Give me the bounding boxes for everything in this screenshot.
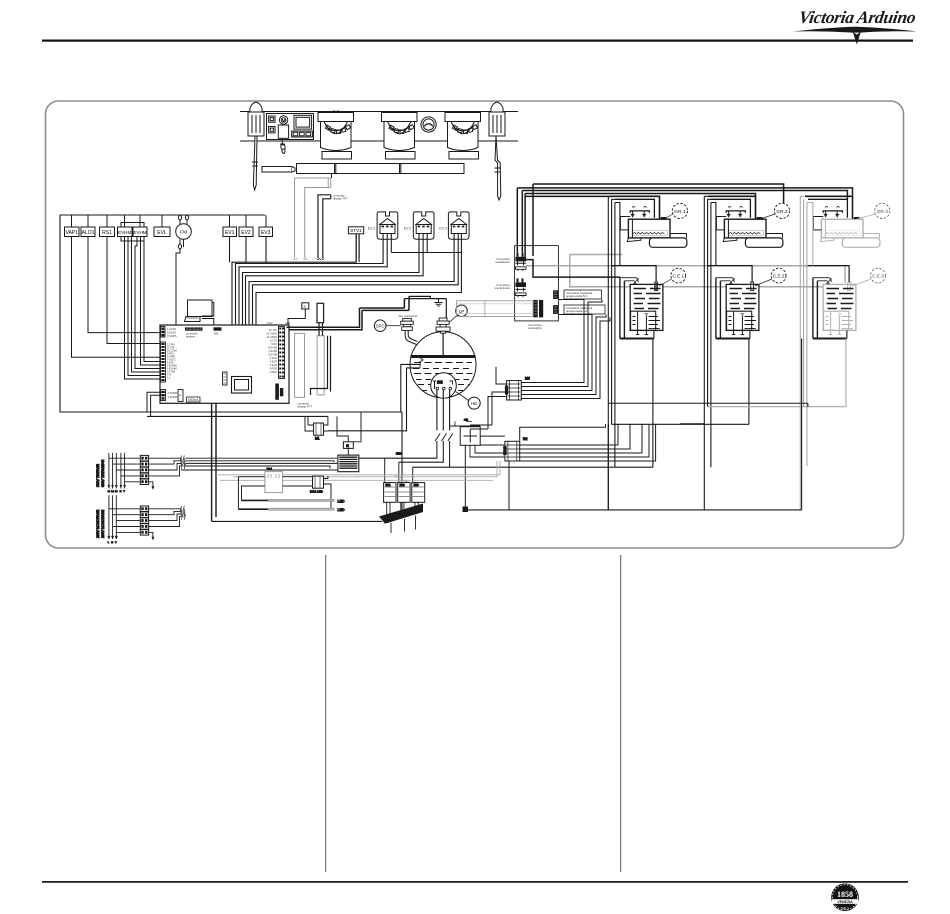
svg-text:230V MONOFASE: 230V MONOFASE — [101, 509, 105, 538]
svg-text:7 EV2B: 7 EV2B — [268, 349, 277, 353]
relay M1 — [314, 423, 324, 435]
bracket around EVHM pair — [121, 223, 144, 242]
water hatch dashes — [413, 363, 473, 391]
relay box EVHM a — [118, 227, 133, 237]
element wires down — [437, 390, 450, 431]
ground symbol — [434, 299, 442, 306]
svg-text:T: T — [115, 542, 117, 544]
thick wire pair CPU to boiler area — [287, 308, 410, 330]
wire common row EV coils — [256, 253, 461, 372]
svg-text:GR.3: GR.3 — [877, 209, 889, 215]
svg-text:C.E.3: C.E.3 — [872, 274, 884, 279]
svg-text:RES: RES — [396, 452, 402, 456]
wires PS to right — [480, 435, 505, 437]
panel display rect — [294, 115, 312, 129]
valve drain tube — [405, 330, 416, 344]
wire FM drop — [160, 249, 180, 348]
connector PWR — [161, 390, 166, 401]
wire EV relay box drops — [230, 237, 267, 263]
svg-text:display TFT: display TFT — [333, 197, 348, 201]
wire EV2 drop — [245, 237, 247, 256]
svg-text:S: S — [303, 304, 306, 309]
display module icon — [185, 300, 214, 325]
STV1 box — [348, 227, 363, 262]
svg-text:F: F — [179, 394, 181, 398]
group column 2 wires — [708, 196, 762, 338]
wire EV1 drop — [229, 237, 231, 253]
bottom black blocks on board — [275, 384, 279, 400]
svg-text:KM1: KM1 — [386, 484, 392, 487]
bus y521 — [212, 520, 382, 522]
block output wires stepping right — [149, 509, 181, 527]
relay box EV1 — [223, 227, 237, 237]
wires below wedge — [391, 516, 416, 534]
svg-text:380V TRIFASE: 380V TRIFASE — [96, 463, 100, 487]
R2 wires left — [470, 445, 505, 457]
GR.2 label circle — [774, 203, 789, 218]
HE label circle — [468, 397, 480, 409]
svg-text:scaldatazze: scaldatazze — [495, 260, 510, 264]
wire S box to CPU — [288, 309, 305, 325]
svg-text:VAP1: VAP1 — [65, 230, 78, 236]
svg-text:EV3: EV3 — [261, 230, 271, 236]
terminal dot B — [463, 507, 469, 513]
wire STV1 row — [232, 234, 356, 343]
machine base line — [240, 140, 518, 142]
drip tray bar small — [262, 167, 295, 173]
level probe electrode — [419, 356, 424, 363]
svg-text:Victoria Arduino: Victoria Arduino — [797, 7, 917, 27]
svg-text:3 EV3: 3 EV3 — [270, 363, 278, 367]
relay box ALO1 — [81, 227, 95, 237]
crossing tick marks — [180, 506, 185, 520]
svg-text:230V MONOFASE: 230V MONOFASE — [96, 509, 100, 538]
svg-text:tastiere: tastiere — [186, 335, 196, 339]
right steam wand — [489, 102, 505, 200]
svg-text:Connettore resistenza: Connettore resistenza — [566, 306, 593, 310]
outer enclosure wire left — [60, 215, 402, 412]
black wedge under relays — [379, 504, 423, 524]
top bus wire to GR2 tray — [533, 184, 784, 203]
element terminals — [433, 381, 436, 389]
SPC leader line — [386, 325, 401, 327]
wire from outer box corner down — [401, 412, 403, 510]
display board corner wire — [311, 323, 331, 395]
M3 wires left — [488, 367, 507, 429]
col3 riser bundle gray — [800, 196, 807, 510]
bus y467 — [413, 466, 711, 467]
RES block 2 — [553, 305, 558, 314]
riser links into bus510 — [608, 339, 801, 511]
connector pair A row1 — [516, 253, 527, 262]
group column 1 wires — [612, 196, 666, 338]
wire RS1 to CPU — [107, 237, 160, 344]
R box — [343, 442, 353, 449]
relay MA1 — [313, 476, 324, 488]
svg-text:R2: R2 — [523, 437, 527, 441]
svg-text:KM2: KM2 — [400, 484, 406, 487]
ground drop from block — [149, 532, 153, 538]
svg-text:R: R — [346, 444, 349, 448]
element wire west corner 3 — [449, 441, 451, 467]
LED strip wire 1 — [242, 499, 269, 501]
lower horizontal bus pair — [60, 412, 401, 416]
svg-text:T: T — [123, 491, 125, 493]
svg-text:L3: L3 — [115, 491, 118, 493]
terminal block 230V — [96, 495, 186, 544]
boxed label resistenza 1-2 — [564, 305, 605, 314]
STV1 wires — [356, 234, 359, 262]
gray wire upper — [570, 255, 843, 287]
wire solenoid pin row c — [243, 234, 420, 356]
R2 wires right nested — [520, 424, 606, 443]
motor M circle — [279, 116, 287, 124]
connector J1 3pin — [161, 327, 166, 338]
drip tray long bar — [297, 164, 465, 174]
relay box EV3 — [259, 227, 273, 237]
dangling knob — [281, 138, 285, 153]
top bus wire — [60, 214, 265, 216]
ribbon rect 1 — [295, 333, 305, 397]
PWR feed wires from CPU — [147, 392, 166, 416]
water line chord — [411, 355, 476, 358]
svg-text:M3: M3 — [525, 377, 530, 381]
keypad connector black strip — [185, 327, 203, 330]
column divider 2 — [620, 555, 621, 872]
left steam wand knob — [250, 102, 262, 120]
col2 tank risers down — [748, 339, 750, 425]
svg-text:display TFT: display TFT — [298, 405, 313, 409]
GR.3 label circle — [875, 203, 890, 218]
input jogs to block — [109, 509, 140, 533]
panel switch square 2 — [269, 127, 275, 133]
svg-text:13 +5V: 13 +5V — [269, 328, 278, 332]
M3 wires right nested to resistance connectors — [521, 300, 584, 383]
HE leader line — [456, 392, 469, 401]
svg-text:8 EV1B: 8 EV1B — [268, 346, 277, 350]
wire solenoid pin row d — [246, 234, 424, 360]
svg-text:5 EV1: 5 EV1 — [270, 356, 278, 360]
svg-text:N: N — [120, 491, 122, 493]
top bus wire to GR1 — [525, 195, 612, 197]
relay box EVL — [154, 227, 170, 237]
svg-text:6 EV3B: 6 EV3B — [268, 353, 277, 357]
svg-text:C.E.1: C.E.1 — [673, 274, 685, 279]
thick vertical pair from CPU — [212, 403, 216, 521]
control panel group — [267, 114, 314, 140]
fan motor FM circle — [176, 224, 192, 240]
relay box RS1 — [100, 227, 115, 237]
svg-text:11 GND2: 11 GND2 — [266, 335, 277, 339]
svg-text:min: min — [464, 419, 469, 422]
wire solenoid pin row a — [236, 234, 384, 348]
processor square — [232, 377, 252, 394]
element wire west corner 1 — [359, 441, 437, 458]
boiler level wire B — [328, 368, 421, 431]
ground drop from block — [149, 482, 153, 488]
svg-text:1 L: 1 L — [167, 375, 171, 379]
wire stack to col1 black L — [526, 260, 620, 278]
group head top-view 1 — [318, 110, 354, 159]
svg-text:RS1: RS1 — [102, 230, 112, 236]
fuse label 500mA — [187, 397, 201, 402]
CPU board outline — [160, 325, 289, 403]
probe gland fitting — [436, 318, 450, 333]
transformer TR1 — [265, 472, 283, 493]
svg-text:3 VAPS: 3 VAPS — [167, 334, 177, 338]
svg-text:EV1: EV1 — [225, 230, 235, 236]
svg-text:analogiche: analogiche — [528, 326, 542, 330]
group column 3 wires (black) — [805, 196, 859, 338]
mains input wires 230V — [109, 495, 116, 539]
aux connector black block — [214, 327, 222, 330]
bottom horizontal rule — [42, 881, 908, 883]
relay box EV2 — [239, 227, 253, 237]
S box above CPU right — [288, 303, 309, 325]
contact slashes — [435, 434, 453, 442]
svg-text:1858: 1858 — [837, 890, 853, 899]
relay box EVHM b — [133, 227, 147, 237]
element wire west corner 2 — [399, 441, 444, 462]
svg-text:FM: FM — [180, 230, 187, 236]
svg-text:N: N — [111, 542, 113, 544]
svg-text:12 GND1: 12 GND1 — [266, 332, 277, 336]
svg-text:EVHM: EVHM — [118, 230, 131, 235]
connector pair B row1 — [516, 278, 527, 287]
svg-text:GR.2: GR.2 — [776, 209, 788, 215]
svg-text:2 POS: 2 POS — [269, 367, 277, 371]
machine front edge line — [240, 111, 518, 113]
svg-text:LED: LED — [338, 499, 345, 503]
panel button strip — [292, 131, 313, 137]
svg-text:valv. antidepress.: valv. antidepress. — [398, 314, 418, 318]
svg-text:ALO1: ALO1 — [82, 230, 95, 236]
svg-text:KM3: KM3 — [414, 484, 420, 487]
wire solenoid pin row b — [239, 234, 387, 352]
input jogs to block — [109, 458, 140, 482]
display cable duct black — [317, 174, 332, 260]
top bus wire pair b — [522, 191, 847, 200]
bottom cross bus y429 stub — [680, 423, 704, 425]
relay box VAP1 — [65, 227, 80, 237]
left steam wand tube — [253, 136, 257, 190]
cable ferrite block — [317, 303, 324, 322]
block output wires stepping right — [149, 458, 181, 476]
svg-text:Connettore resistenza: Connettore resistenza — [566, 291, 593, 295]
panel switch square 1 — [269, 116, 275, 122]
group column 2 hardware — [723, 219, 783, 334]
crossing tick marks — [180, 456, 185, 470]
boxed label resistenza 5-6 — [564, 290, 602, 299]
svg-text:STV1: STV1 — [350, 228, 362, 233]
group column 3 hardware (optional, gray) — [820, 219, 880, 334]
top horizontal rule — [42, 40, 913, 42]
bottom cross bus y424 — [612, 423, 749, 425]
Victoria Arduino logo script text — [793, 7, 918, 44]
wire PS bottom to B terminal — [464, 445, 466, 506]
svg-text:VENEZIA: VENEZIA — [837, 900, 853, 904]
connector pair A row2 — [516, 267, 527, 271]
LP leader line — [449, 315, 458, 323]
svg-text:9 RX: 9 RX — [271, 342, 277, 346]
relay bank top feed wires — [385, 458, 413, 482]
svg-text:sonda livello: sonda livello — [495, 286, 511, 290]
MA1 wires — [285, 476, 331, 510]
display cable duct gray — [293, 178, 331, 260]
wire risers from connector stack — [517, 184, 533, 261]
svg-text:LP: LP — [459, 309, 464, 314]
wire EV3 drop — [265, 237, 267, 259]
gray cross bus y407 — [708, 406, 846, 408]
svg-text:EV.1: EV.1 — [368, 227, 375, 231]
connector J2 long strip — [161, 342, 166, 382]
svg-text:500mA: 500mA — [188, 398, 199, 402]
svg-text:1 PWR: 1 PWR — [168, 395, 178, 399]
svg-text:EV2: EV2 — [241, 230, 251, 236]
LP label circle — [456, 305, 468, 317]
logo wing swoosh — [793, 27, 917, 33]
group head top-view 3 — [445, 113, 481, 160]
ribbon rect 2 — [317, 336, 324, 395]
wire VAP1 to CPU — [72, 237, 161, 358]
col2 riser bundle — [704, 196, 711, 510]
wires left boxes to CPU — [72, 237, 267, 380]
pressure switch top line — [450, 425, 481, 428]
svg-text:EVHM: EVHM — [133, 230, 146, 235]
svg-text:EVL: EVL — [157, 230, 167, 236]
GR.1 label circle — [672, 203, 687, 218]
ribbon cable flat — [457, 301, 534, 317]
svg-text:TR1: TR1 — [267, 467, 273, 471]
panel lever block — [278, 125, 288, 138]
bottom-right emblem — [831, 884, 859, 912]
RES block 1 — [553, 290, 558, 299]
svg-text:380V TRIFASE+N: 380V TRIFASE+N — [101, 459, 105, 487]
power bus to filter — [181, 458, 338, 470]
ribbon connector dark strips — [534, 300, 538, 318]
wire ALO1 to CPU — [88, 237, 160, 333]
EMI filter — [338, 455, 359, 472]
svg-text:M1: M1 — [315, 437, 320, 441]
wire pair rise to valve area — [404, 296, 409, 310]
group column 1 hardware — [627, 219, 687, 334]
col1 riser bundle — [608, 196, 615, 510]
group head top-view 2 — [382, 113, 418, 160]
wire sol3 pin corners — [249, 234, 454, 364]
TR1 wires left — [238, 477, 262, 510]
terminal block 380V — [96, 453, 186, 493]
svg-text:GR.1: GR.1 — [674, 209, 686, 215]
anti-vacuum valve — [401, 319, 414, 331]
svg-text:C.E.2: C.E.2 — [773, 274, 785, 279]
solenoid connector EV.2 — [404, 212, 434, 239]
col1 tank risers down — [653, 283, 656, 467]
svg-text:10 TX: 10 TX — [270, 339, 277, 343]
gauge dial — [421, 117, 436, 132]
relay bank of three — [384, 483, 425, 503]
wire sonda to right gray — [526, 266, 845, 283]
connector pair B row2 — [516, 293, 527, 297]
top bus wire to GR3 — [517, 188, 852, 196]
connector CN2 double strip — [279, 327, 285, 379]
svg-text:L: L — [108, 542, 110, 544]
svg-text:1 NEG: 1 NEG — [269, 370, 277, 374]
svg-text:EV.3: EV.3 — [439, 227, 446, 231]
component CN small — [223, 372, 228, 385]
pressure switch box — [460, 427, 480, 446]
bus y403 — [609, 403, 808, 407]
gray control wires to relay bank — [216, 461, 500, 480]
wire bundle EVHM/EVL nested — [125, 237, 161, 380]
LED strip wire 2 — [238, 508, 268, 510]
svg-text:HE: HE — [471, 401, 477, 406]
wires relays to wedge — [387, 502, 419, 519]
right connector pin labels — [266, 328, 277, 374]
mains input wires 380V — [109, 453, 125, 489]
main bottom bus y510 — [466, 509, 802, 511]
level probe rod — [442, 333, 444, 357]
C.E.3 label circle — [871, 268, 886, 283]
svg-text:EV.2: EV.2 — [404, 227, 411, 231]
boiler level wire A — [401, 364, 421, 412]
C.E.1 label circle — [671, 268, 686, 283]
fuse F1 — [178, 390, 183, 402]
boiler shell circle — [410, 332, 476, 398]
wire drops bus to boxes — [72, 215, 267, 227]
heating element flange circle — [431, 373, 457, 399]
rounded frame around schematic — [46, 101, 904, 548]
svg-text:MB: MB — [214, 332, 218, 336]
svg-text:M: M — [282, 118, 286, 123]
SPC label circle — [374, 320, 386, 332]
svg-text:LED: LED — [338, 508, 345, 512]
column divider 1 — [325, 555, 326, 872]
svg-text:gruppo-uscita 5-6: gruppo-uscita 5-6 — [566, 294, 587, 298]
svg-text:4 EV2: 4 EV2 — [270, 360, 278, 364]
C.E.2 label circle — [771, 268, 786, 283]
col3 tank risers down gray — [845, 339, 847, 407]
wire display icon to CPU — [202, 303, 214, 326]
solenoid connector EV.3 — [439, 212, 469, 239]
solenoid connector EV.1 — [368, 212, 398, 239]
top bus wire to GR2 — [525, 194, 755, 197]
svg-text:MA1 LED: MA1 LED — [310, 490, 324, 494]
svg-text:CN2: CN2 — [267, 321, 273, 325]
svg-text:SPC: SPC — [376, 324, 385, 329]
stack enclosure box — [515, 246, 559, 321]
svg-text:ITALY: ITALY — [841, 907, 851, 911]
